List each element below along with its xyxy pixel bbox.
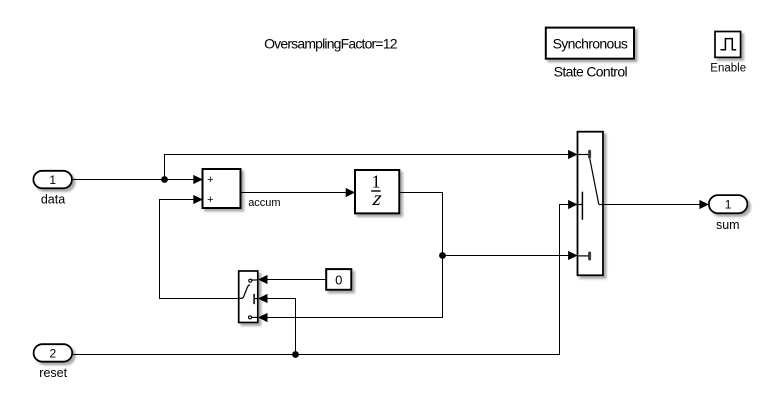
wire reset to switch middle (72, 200, 577, 355)
wire data to sum (72, 175, 203, 184)
svg-text:0: 0 (335, 272, 342, 287)
wire data branch to switch top (165, 150, 578, 180)
label reset (39, 366, 67, 380)
svg-text:1: 1 (49, 173, 56, 187)
svg-text:OversamplingFactor=12: OversamplingFactor=12 (264, 36, 398, 52)
junction on delay feedback (439, 252, 446, 259)
svg-text:sum: sum (716, 218, 740, 232)
junction on data wire (161, 176, 168, 183)
svg-text:Enable: Enable (710, 62, 746, 74)
svg-text:+: + (207, 174, 213, 186)
label accum (248, 197, 280, 209)
wire reset branch to small switch middle (258, 294, 296, 355)
outport 1 (709, 195, 748, 213)
svg-text:State Control: State Control (554, 63, 628, 79)
enable block (715, 32, 741, 58)
svg-text:1: 1 (725, 198, 732, 212)
wire constant to small switch top (258, 275, 326, 284)
constant block 0 (326, 269, 351, 290)
annotation OversamplingFactor=12 (264, 36, 398, 52)
wire small switch out to sum second input (160, 195, 239, 299)
switch block (output select) (578, 132, 604, 276)
svg-text:reset: reset (39, 366, 67, 380)
label sum (716, 218, 740, 232)
state control block "Synchronous" (546, 28, 634, 59)
switch block (reset select, mirrored) (239, 271, 258, 323)
wire sum to unit delay (241, 188, 356, 197)
label Enable (710, 62, 746, 74)
wire delay branch to switch bottom (443, 251, 578, 260)
svg-text:Synchronous: Synchronous (553, 36, 628, 52)
unit delay block 1/z (355, 170, 399, 213)
svg-text:+: + (207, 194, 213, 206)
label State Control (554, 63, 628, 79)
svg-text:data: data (41, 193, 65, 207)
wire switch output to outport sum (603, 200, 709, 209)
wire unit delay down to reset switch (258, 193, 443, 323)
label data (41, 193, 65, 207)
inport 2 (34, 344, 73, 362)
svg-text:2: 2 (50, 346, 57, 360)
inport 1 (33, 171, 72, 189)
junction on reset wire (292, 351, 299, 358)
sum block (Add) (203, 169, 241, 208)
svg-text:accum: accum (248, 197, 280, 209)
